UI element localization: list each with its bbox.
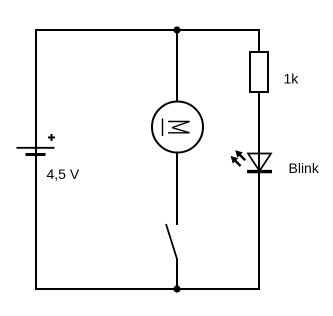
node bottom junction [173,285,180,292]
wire right branch middle [258,92,260,172]
LED light arrow 2 [231,156,241,166]
wire motor branch lower [176,258,178,290]
resistor R1 [250,52,268,92]
wire bottom rail [35,288,260,290]
node top junction [173,26,180,33]
switch S1 [166,224,177,259]
wire left rail upper [35,29,37,154]
wire motor branch upper [176,29,178,102]
motor M1 [152,102,203,153]
battery [17,148,55,155]
wire motor branch middle [176,153,178,226]
resistor value label 1k [284,71,300,87]
LED light arrow 1 [235,150,245,160]
svg-text:1k: 1k [284,71,300,87]
battery polarity + [48,134,55,141]
battery value label 4,5 V [47,166,80,182]
wire left rail lower [35,154,37,290]
wire right branch lower [258,172,260,290]
svg-text:4,5 V: 4,5 V [47,166,80,182]
svg-text:Blink: Blink [289,160,320,176]
LED label Blink [289,160,320,176]
wire right branch upper [258,29,260,53]
LED D1 [247,154,272,172]
wire top rail [35,29,260,31]
